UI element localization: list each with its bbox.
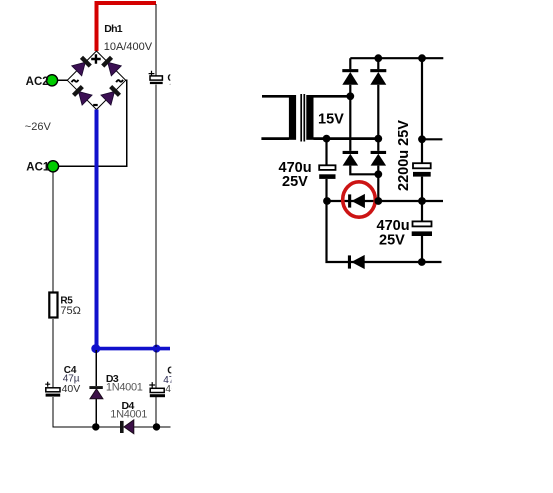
svg-text:25V: 25V <box>379 233 405 249</box>
wire left diode column <box>350 58 378 174</box>
wire top rail <box>350 57 443 59</box>
wire red V+ from bridge + output <box>97 3 157 51</box>
svg-text:25V: 25V <box>282 174 308 190</box>
wire AC1 down to R5 <box>52 172 54 292</box>
node top rail / right diode column <box>374 54 382 62</box>
svg-text:~26V: ~26V <box>25 121 52 133</box>
wire C4 to bottom rail <box>53 397 170 427</box>
capacitor C6 470u 25V left <box>319 165 335 170</box>
diode D4 <box>120 421 124 433</box>
svg-text:AC1: AC1 <box>26 162 50 174</box>
diode D3 <box>89 386 102 389</box>
node blue junction right <box>153 345 161 353</box>
capacitor C5 (label cropped) <box>150 388 164 392</box>
wire blue - rail vertical from bridge <box>95 110 99 349</box>
svg-text:2200u 25V: 2200u 25V <box>396 120 412 191</box>
label C5 cropped fragments <box>163 366 183 395</box>
node mid rail / left cap column <box>323 197 331 205</box>
svg-text:40V: 40V <box>62 383 81 395</box>
diode D5 top-left <box>342 69 358 72</box>
capacitor C4 <box>46 388 60 392</box>
wire blue node down to C5 <box>155 350 157 388</box>
svg-text:40V: 40V <box>165 384 183 395</box>
node mid rail / right diode column <box>374 197 382 205</box>
terminal AC1 <box>47 161 58 172</box>
node mid rail / right cap column <box>418 197 426 205</box>
wire AC1 to bridge right vertex <box>59 80 127 166</box>
node top rail / right cap column <box>418 54 426 62</box>
bridge diode bottom-right (- to AC1) <box>101 84 122 105</box>
diode D7 second-row-left <box>343 151 359 154</box>
bridge - terminal mark <box>93 104 98 106</box>
diode D10 bottom <box>348 255 351 268</box>
bridge rectifier Dh1 diamond outline <box>67 51 125 110</box>
svg-text:1N4001: 1N4001 <box>110 408 147 420</box>
capacitor C1 polarity + <box>149 71 155 77</box>
node blue junction left <box>91 344 100 353</box>
svg-text:75Ω: 75Ω <box>60 305 80 317</box>
capacitor C4 polarity + <box>45 382 50 387</box>
capacitor C1 (label cropped) <box>150 76 162 80</box>
wire C1 down to blue node <box>155 85 157 347</box>
bridge ~ mark right <box>116 80 123 82</box>
node bottom lead / left cap column <box>323 135 331 143</box>
node left diode anode join <box>374 170 382 178</box>
node bottom rail junction left <box>92 423 99 430</box>
diode D6 top-right <box>370 69 386 72</box>
wire left cap column <box>327 139 442 262</box>
capacitor C7 2200u 25V <box>413 163 431 168</box>
bridge diode top-left (AC2 to +) <box>72 55 93 76</box>
wire blue node down to D3 <box>95 350 97 386</box>
svg-text:1N4001: 1N4001 <box>106 382 143 394</box>
terminal AC2 <box>46 75 57 86</box>
bridge diode top-right (AC1 to +) <box>101 55 122 76</box>
svg-text:47: 47 <box>167 82 179 93</box>
wire AC2 to bridge <box>58 79 68 81</box>
node bottom rail junction right <box>153 423 160 430</box>
capacitor C8 470u 25V right <box>413 221 432 226</box>
transformer primary winding <box>289 95 296 140</box>
wire R5 to C4 <box>52 319 54 388</box>
label C1 cropped fragment <box>167 73 180 93</box>
svg-text:Dh1: Dh1 <box>104 23 122 35</box>
wire right diode column <box>377 58 379 201</box>
capacitor C5 polarity + <box>149 382 155 388</box>
bridge ~ mark left <box>72 80 79 82</box>
bridge + terminal mark <box>91 54 101 63</box>
wire right cap column <box>421 58 423 262</box>
svg-text:15V: 15V <box>318 112 344 128</box>
node right cap column y139 <box>418 135 426 143</box>
node transformer top lead <box>346 92 354 100</box>
resistor R5 <box>49 293 57 318</box>
transformer T1 primary leads <box>261 96 289 138</box>
wire blue - rail horizontal <box>94 347 170 351</box>
wire from red rail down to C1 <box>155 4 157 76</box>
wire D3 to bottom rail <box>95 399 97 427</box>
wire stub right of y139 node <box>422 138 442 140</box>
node bottom lead / right diode column <box>374 135 382 143</box>
svg-text:AC2: AC2 <box>26 76 49 88</box>
highlight red circle <box>343 182 376 217</box>
transformer core <box>301 94 304 142</box>
diode D9 (circled) <box>348 194 351 207</box>
wire secondary top lead <box>314 95 351 98</box>
node bottom rail / right cap column <box>418 258 426 266</box>
bridge diode bottom-left (- to AC2) <box>71 84 92 105</box>
svg-text:10A/400V: 10A/400V <box>104 41 153 53</box>
wire C5 to bottom rail <box>155 397 157 427</box>
transformer secondary winding <box>306 95 313 140</box>
diode D8 second-row-right <box>371 151 387 154</box>
wire secondary bottom lead <box>314 137 379 140</box>
wire output mid rail <box>327 200 443 202</box>
